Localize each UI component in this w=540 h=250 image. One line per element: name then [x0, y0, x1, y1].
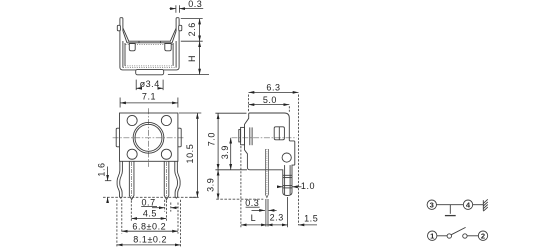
svg-text:1.5: 1.5	[304, 214, 318, 224]
svg-text:1.0: 1.0	[301, 181, 315, 191]
svg-text:L: L	[251, 213, 257, 223]
svg-text:10.5: 10.5	[185, 144, 195, 164]
svg-text:7.1: 7.1	[142, 92, 156, 102]
svg-text:6.3: 6.3	[266, 83, 280, 93]
svg-text:1: 1	[430, 232, 435, 241]
svg-text:4.5: 4.5	[143, 209, 157, 219]
svg-text:2.6: 2.6	[187, 22, 197, 36]
svg-text:2: 2	[481, 232, 485, 241]
svg-text:ø3.4: ø3.4	[140, 79, 160, 89]
svg-text:8.1±0.2: 8.1±0.2	[133, 235, 167, 245]
svg-text:0.7: 0.7	[142, 198, 156, 208]
svg-text:7.0: 7.0	[207, 132, 217, 146]
svg-text:0.3: 0.3	[188, 0, 202, 9]
svg-text:4: 4	[466, 201, 471, 210]
svg-text:3.9: 3.9	[205, 178, 215, 192]
svg-text:6.8±0.2: 6.8±0.2	[132, 222, 166, 232]
svg-text:H: H	[187, 55, 197, 62]
svg-text:0.3: 0.3	[245, 198, 259, 208]
svg-text:3.9: 3.9	[220, 145, 230, 159]
svg-text:3: 3	[430, 201, 434, 210]
svg-text:5.0: 5.0	[263, 95, 277, 105]
svg-text:2.3: 2.3	[270, 213, 284, 223]
svg-text:1.6: 1.6	[97, 162, 107, 176]
